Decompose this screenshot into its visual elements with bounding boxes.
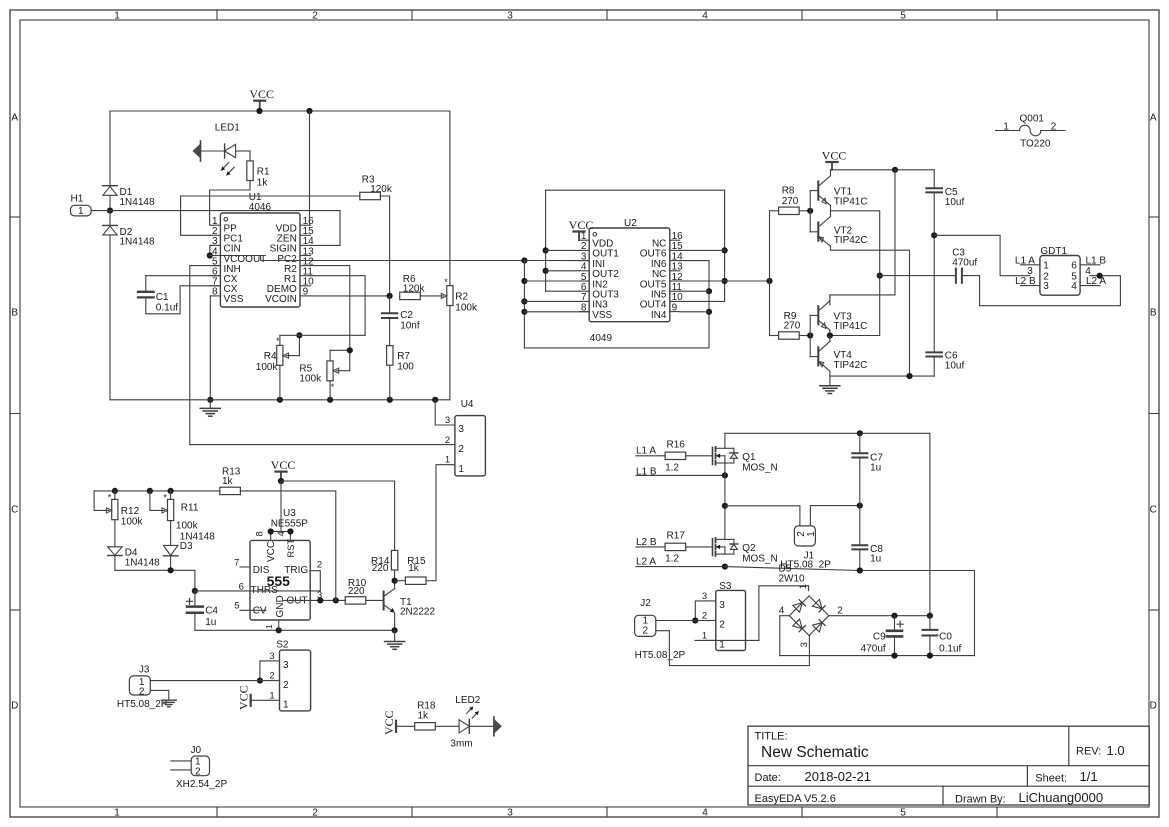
svg-text:100k: 100k [299, 374, 322, 385]
svg-text:*: * [108, 493, 112, 503]
wire R16-Q1 gate [686, 455, 713, 457]
ground (VT4) [829, 376, 831, 385]
svg-text:4049: 4049 [590, 333, 613, 344]
connector U4 body [455, 416, 486, 476]
wire big-loop right lower [449, 306, 451, 400]
svg-text:REV:: REV: [1076, 746, 1101, 758]
node U1 pin4 [207, 252, 213, 258]
wire to THRS [194, 570, 196, 591]
power flag VCC (S2, rotated) [250, 695, 252, 706]
wire R6-R2 wiper [420, 295, 443, 297]
555 GND pin [278, 620, 280, 630]
wire U1 pin3-pin4 hook [210, 245, 216, 255]
wire U1 pin14-H1 [310, 211, 340, 246]
resistor R18 1k [415, 723, 436, 730]
wire U2 outputs right [724, 190, 726, 301]
node U2 input net [521, 257, 527, 263]
svg-text:1u: 1u [205, 617, 216, 628]
resistor R6 120k [400, 292, 421, 299]
wire U2 out stubs [546, 249, 580, 251]
wire bridge pin2 [829, 615, 930, 617]
svg-text:*: * [163, 493, 167, 503]
svg-text:J2: J2 [640, 598, 651, 609]
diode D2 1N4148 [109, 211, 111, 226]
wire OUT row [283, 599, 345, 601]
wire 555 gnd row [195, 629, 395, 631]
svg-text:VCC: VCC [249, 87, 274, 101]
wire R12 wiper [94, 491, 109, 511]
ground (J3) [161, 699, 176, 701]
wire gnd-LED1 [201, 150, 225, 152]
svg-text:R8: R8 [782, 186, 795, 197]
node DC- C9 [891, 653, 897, 659]
node VCC-555 branch [278, 478, 284, 484]
resistor R14 220 [391, 550, 397, 570]
wire R9-bases [799, 335, 810, 337]
wire PC1-R3 [181, 195, 360, 197]
svg-text:100k: 100k [256, 362, 279, 373]
svg-text:VSS: VSS [224, 294, 244, 305]
capacitor C7 1u [859, 433, 861, 453]
node VCC-U1pin16 [306, 108, 312, 114]
svg-text:10uf: 10uf [945, 360, 965, 371]
wire VCC-R14 [281, 481, 395, 550]
svg-text:2018-02-21: 2018-02-21 [805, 769, 872, 784]
svg-text:LED2: LED2 [455, 695, 480, 706]
switch S2 body [280, 650, 311, 711]
svg-text:Sheet:: Sheet: [1035, 773, 1067, 785]
transistor Q1 MOS_N [712, 447, 714, 464]
svg-text:R16: R16 [667, 440, 686, 451]
node output2 [827, 332, 833, 338]
svg-text:2: 2 [702, 611, 707, 622]
node T1 emitter gnd [392, 627, 398, 633]
wire S2 pin2 - J3 pin1 [150, 680, 269, 682]
svg-text:8: 8 [212, 287, 218, 298]
wire J1 pin1 [810, 506, 859, 526]
node R11 top [168, 488, 174, 494]
svg-text:1k: 1k [257, 178, 269, 189]
node THRS junction [192, 588, 198, 594]
svg-text:3: 3 [799, 642, 810, 647]
svg-text:IN4: IN4 [651, 310, 667, 321]
capacitor C3 470uf [955, 269, 957, 283]
svg-text:3mm: 3mm [450, 739, 472, 750]
svg-text:MOS_N: MOS_N [742, 462, 778, 473]
wire THRS row [195, 590, 320, 592]
wire S3 pin1-bridge [695, 586, 809, 641]
node D3 bottom [168, 567, 174, 573]
svg-text:L2 B: L2 B [636, 537, 657, 548]
svg-text:THRS: THRS [251, 585, 279, 596]
wire VCOOUT jog [261, 256, 525, 261]
connector H1 [71, 205, 92, 216]
wire VT4 emitter row [830, 375, 934, 377]
ground (arrow, LED2) [493, 717, 495, 736]
node VT12 base [807, 208, 813, 214]
S3 pins [706, 600, 716, 602]
transistor VT2 TIP42C [817, 223, 819, 241]
node GDT pin5 label [1097, 273, 1103, 279]
svg-text:120k: 120k [403, 283, 426, 294]
wire U2 outputs left [545, 190, 547, 291]
svg-text:8: 8 [255, 531, 266, 536]
wire U1 pin8 VSS [209, 296, 211, 400]
wire S3 pin3 bracket [695, 601, 706, 621]
wire R14 bottom [394, 570, 396, 581]
svg-text:R17: R17 [667, 531, 686, 542]
svg-text:270: 270 [782, 196, 799, 207]
svg-text:New Schematic: New Schematic [761, 744, 869, 761]
svg-text:1: 1 [264, 624, 274, 629]
svg-text:220: 220 [348, 586, 365, 597]
node VT2C-gnd [906, 373, 912, 379]
svg-text:3: 3 [458, 424, 464, 435]
potentiometer R5 100k [329, 350, 331, 361]
connector J2 body [635, 615, 656, 636]
svg-text:C0: C0 [939, 632, 952, 643]
wire R17-Q2 gate [686, 546, 713, 548]
wire VT2 collector [831, 250, 910, 376]
node C8 bottom [857, 567, 863, 573]
node U2 pin4 [543, 268, 549, 274]
svg-text:R2: R2 [455, 291, 468, 302]
svg-text:2: 2 [317, 559, 322, 570]
svg-text:2: 2 [312, 807, 318, 818]
node Q1 source [722, 472, 728, 478]
svg-text:NE555P: NE555P [271, 519, 309, 530]
svg-text:5: 5 [900, 10, 906, 21]
J0 pin1 stub [171, 760, 191, 762]
transistor VT4 TIP42C [817, 347, 819, 365]
svg-text:OUT: OUT [286, 596, 307, 607]
svg-text:1N4148: 1N4148 [120, 197, 155, 208]
wire U4 pin3 [435, 400, 455, 425]
J0 pin2 stub [171, 769, 191, 771]
wire C4 top [194, 591, 196, 606]
svg-text:VCC: VCC [382, 710, 396, 735]
svg-text:3: 3 [507, 10, 513, 21]
node R11 wiper tap [147, 488, 153, 494]
svg-text:3: 3 [283, 660, 289, 671]
fuse Q001 [996, 130, 1020, 132]
resistor R15 1k [405, 577, 426, 584]
potentiometer R2 100k [447, 286, 453, 306]
node DC+ C0 [927, 613, 933, 619]
555 pin7 stub [240, 566, 250, 568]
svg-text:1: 1 [1003, 122, 1009, 133]
svg-text:220: 220 [372, 563, 389, 574]
node U2 pin5 [521, 278, 527, 284]
svg-text:VCC: VCC [569, 218, 594, 232]
svg-text:1.2: 1.2 [665, 463, 679, 474]
wire R3 right [380, 196, 389, 296]
svg-text:2: 2 [195, 766, 201, 777]
svg-text:C4: C4 [205, 605, 218, 616]
wire U1 pin12-R5 [310, 266, 349, 351]
U2 pins [579, 239, 589, 241]
node 555 pin4 top [287, 528, 293, 534]
potentiometer R12 100k [114, 491, 116, 500]
svg-text:3: 3 [445, 415, 450, 426]
svg-text:100: 100 [397, 362, 414, 373]
LED LED1 [224, 144, 226, 158]
svg-text:TIP41C: TIP41C [834, 321, 868, 332]
svg-text:R7: R7 [397, 351, 410, 362]
svg-text:2: 2 [1051, 122, 1057, 133]
svg-text:2: 2 [283, 680, 289, 691]
svg-text:470uf: 470uf [952, 257, 977, 268]
wire 555 top bracket [271, 532, 291, 541]
svg-text:J3: J3 [139, 664, 150, 675]
wire R4 top row [280, 334, 365, 336]
svg-text:*: * [331, 382, 335, 392]
svg-text:4: 4 [779, 606, 785, 617]
wire big-loop right upper [449, 111, 451, 286]
node 555 pin8 top [268, 528, 274, 534]
svg-text:B: B [11, 308, 18, 319]
svg-text:9: 9 [303, 287, 309, 298]
svg-text:L2 B: L2 B [1015, 276, 1036, 287]
wire DC- row [780, 655, 975, 657]
diode D3 1N4148 [163, 545, 178, 555]
svg-text:R11: R11 [181, 503, 199, 514]
555 pin5 stub [240, 609, 266, 611]
node R4 bottom [277, 397, 283, 403]
ground (T1) [394, 630, 396, 641]
wire output1-C3 row [880, 275, 956, 277]
svg-text:2: 2 [269, 671, 274, 682]
node R4 top [296, 332, 302, 338]
svg-text:H1: H1 [71, 194, 84, 205]
node VCC-stub [256, 108, 262, 114]
LED1 emission arrows [221, 162, 229, 170]
svg-text:1: 1 [702, 630, 707, 641]
node VSS-gnd [207, 397, 213, 403]
resistor R8 270 [779, 207, 800, 214]
node U2 pin15 [722, 247, 728, 253]
wire H1 row [91, 210, 340, 212]
svg-text:3: 3 [1043, 281, 1049, 292]
node R5 bottom [327, 397, 333, 403]
wire R8R9 vertical [769, 211, 771, 336]
power flag VCC (LED2, rotated) [395, 721, 397, 732]
svg-text:470uf: 470uf [861, 643, 886, 654]
transformer GDT1 body [1040, 256, 1080, 296]
svg-text:1: 1 [114, 10, 120, 21]
wire U4 pin1-R15 [436, 465, 455, 581]
wire R11 wiper [150, 491, 165, 511]
svg-text:A: A [11, 113, 18, 124]
svg-text:HT5.08_2P: HT5.08_2P [117, 699, 168, 710]
LED LED2 3mm [459, 720, 469, 733]
svg-text:1: 1 [798, 584, 809, 589]
wire OUT5 to drivers [680, 280, 770, 282]
wire R7 bottom [389, 365, 391, 400]
node U2 pin7 [521, 298, 527, 304]
svg-text:2: 2 [445, 435, 450, 446]
svg-text:1u: 1u [870, 462, 881, 473]
capacitor C8 1u [859, 506, 861, 546]
node S2 pin2 [257, 678, 263, 684]
svg-text:D: D [1150, 701, 1157, 712]
transistor VT1 TIP41C [817, 182, 819, 200]
svg-text:1u: 1u [870, 554, 881, 565]
wire VCOOUT strike [210, 255, 261, 257]
wire U1 pin9-R6 [310, 295, 389, 297]
wire VT34 base vert [809, 315, 811, 356]
node J1 pin2 tap [722, 503, 728, 509]
wire Q1S-Q2D [724, 463, 726, 539]
svg-text:5: 5 [234, 601, 239, 612]
svg-text:2: 2 [139, 686, 145, 697]
wire J2 pin2 [656, 631, 810, 666]
wire VT3 collector drop [830, 170, 895, 305]
svg-text:CV: CV [253, 606, 267, 617]
connector J3 body [129, 676, 150, 695]
svg-text:GND: GND [275, 595, 286, 617]
wire output1 [830, 211, 880, 336]
connector J0 body [191, 756, 209, 776]
svg-text:U2: U2 [624, 218, 637, 229]
wire U2 inputs left [523, 261, 525, 348]
transistor VT3 TIP41C [817, 306, 819, 324]
svg-text:C9: C9 [873, 632, 886, 643]
wire big-loop left [109, 111, 111, 186]
switch S3 body [716, 590, 746, 650]
svg-text:0.1uf: 0.1uf [939, 643, 961, 654]
S2 pins [270, 660, 280, 662]
svg-text:TO220: TO220 [1020, 139, 1051, 150]
timer U3 NE555P body [250, 540, 310, 620]
svg-text:7: 7 [234, 558, 239, 569]
wire pot rail [94, 490, 220, 492]
wire U2 in stubs right [680, 290, 709, 292]
resistor R10 220 [345, 597, 366, 604]
resistor R3 120k [360, 192, 381, 199]
svg-text:U3: U3 [283, 508, 296, 519]
resistor R17 1.2 [665, 543, 686, 550]
resistor R1 [247, 161, 253, 181]
GDT1 pins [1021, 264, 1040, 266]
svg-text:D: D [11, 701, 18, 712]
diode D4 1N4148 [108, 547, 122, 556]
svg-text:VCC: VCC [237, 685, 251, 710]
svg-text:L1 A: L1 A [636, 445, 656, 456]
node pin9-R6-C2 [387, 293, 393, 299]
svg-text:10nf: 10nf [400, 321, 420, 332]
svg-text:VCC: VCC [271, 458, 296, 472]
wire U1 pin2-PC1 [181, 196, 211, 235]
svg-text:2: 2 [837, 606, 843, 617]
buffer U2 4049 body [589, 228, 670, 322]
ground (U1 VSS) [209, 400, 211, 408]
diode D1 1N4148 [103, 185, 118, 187]
transistor T1 2N2222 [383, 592, 385, 610]
svg-text:GDT1: GDT1 [1040, 246, 1067, 257]
wire R8-bases [799, 210, 810, 212]
wire INH to U4 pin2 [190, 444, 455, 446]
svg-text:C: C [11, 505, 18, 516]
node DC- C0 [927, 653, 933, 659]
wire U2 loop top [546, 189, 725, 191]
svg-text:1: 1 [269, 690, 274, 701]
capacitor C6 10uf [926, 351, 942, 353]
svg-text:A: A [1150, 113, 1157, 124]
resistor R13 1k [220, 487, 241, 494]
svg-text:3: 3 [719, 600, 725, 611]
wire VT12 base vert [809, 191, 811, 232]
wire R8 left [770, 210, 779, 212]
op-amp U1 4046 body [220, 213, 300, 307]
capacitor C1 0.1uf [145, 276, 147, 292]
svg-text:LED1: LED1 [215, 122, 240, 133]
resistor R7 100 [387, 346, 393, 366]
capacitor C2 10nf [389, 296, 391, 313]
node Q2 source [722, 564, 728, 570]
svg-text:L2 A: L2 A [636, 557, 656, 568]
resistor R16 1.2 [665, 452, 686, 459]
wire HV top rail [725, 432, 930, 434]
svg-text:1N4148: 1N4148 [120, 237, 155, 248]
potentiometer R11 100k [170, 491, 172, 500]
U1 pins [210, 224, 220, 226]
wire HV right drop [929, 433, 931, 615]
svg-text:6: 6 [239, 582, 244, 593]
svg-text:*: * [276, 336, 280, 346]
wire U2 inputs bottom [524, 261, 709, 348]
svg-text:1k: 1k [418, 710, 430, 721]
wire S2 pin3 bracket [260, 661, 270, 681]
svg-text:1: 1 [445, 455, 450, 466]
node U4pin3 drop [432, 397, 438, 403]
node driver feed [766, 278, 772, 284]
svg-text:B: B [1150, 308, 1157, 319]
wire R15 right [426, 580, 436, 582]
node U2 pin11 [706, 288, 712, 294]
svg-text:1: 1 [114, 807, 120, 818]
capacitor C4 1u [187, 598, 193, 604]
svg-text:120k: 120k [370, 184, 393, 195]
svg-text:LiChuang0000: LiChuang0000 [1019, 790, 1104, 805]
svg-text:TITLE:: TITLE: [755, 731, 788, 743]
wire L2A run [725, 567, 975, 656]
wire U2 in stubs [524, 260, 589, 262]
svg-text:2: 2 [458, 444, 464, 455]
wire C3 to GDT pin5 [962, 276, 1121, 306]
svg-text:3: 3 [702, 591, 707, 602]
svg-text:4: 4 [702, 807, 708, 818]
wire D4-D3 row [115, 569, 195, 571]
svg-text:*: * [444, 277, 448, 287]
node OUT-a [317, 597, 323, 603]
svg-text:1.2: 1.2 [665, 554, 679, 565]
svg-text:HT5.08_2P: HT5.08_2P [635, 650, 686, 661]
wire VCC rail top [110, 110, 450, 112]
title block [748, 726, 1149, 805]
wire TRIG bracket [310, 571, 321, 591]
svg-text:4046: 4046 [249, 202, 272, 213]
svg-text:1: 1 [78, 206, 84, 217]
svg-text:Date:: Date: [755, 772, 781, 784]
wire R9 left [770, 335, 779, 337]
connector J1 body [794, 526, 815, 546]
svg-text:EasyEDA V5.2.6: EasyEDA V5.2.6 [755, 793, 836, 805]
svg-text:270: 270 [784, 321, 801, 332]
svg-text:9: 9 [672, 302, 678, 313]
node U2 pin12 [722, 278, 728, 284]
capacitor C9 470uf [894, 616, 896, 631]
